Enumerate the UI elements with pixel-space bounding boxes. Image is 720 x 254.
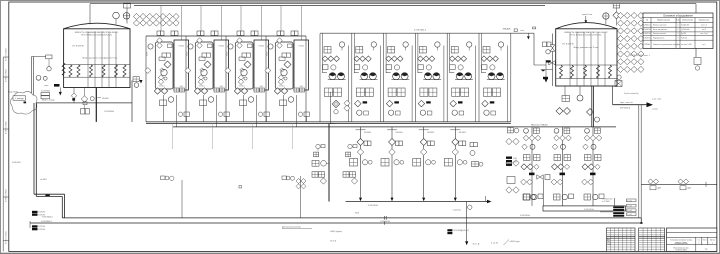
svg-text:9.078-96: 9.078-96 [38, 229, 45, 231]
discharge column PC3 grid boxes [585, 155, 592, 161]
filter unit FU3 lower circle and box [258, 112, 262, 116]
filter unit FU1 lower circle and box [178, 112, 182, 116]
pump unit PU5 pump suction line [450, 72, 455, 74]
tank T1 heating coils [69, 65, 72, 77]
drain column DC4 second diamond [452, 149, 459, 156]
pump unit PU2 discharge diamond [355, 100, 362, 107]
svg-text:9.078 сл: 9.078 сл [279, 86, 285, 88]
drain arrow under tank T1 [59, 92, 62, 96]
svg-text:1: 1 [678, 44, 679, 46]
svg-text:ЕМКОСТЬ ХРАНЕНИЯ МАЗУТА ПОЗ.Е-: ЕМКОСТЬ ХРАНЕНИЯ МАЗУТА ПОЗ.Е-9601/1 [75, 31, 119, 34]
svg-text:9.078-ТХ-9603: 9.078-ТХ-9603 [6, 48, 8, 61]
svg-text:2 сл.Б: 2 сл.Б [627, 210, 632, 212]
discharge column PC1 diamond+circle [522, 144, 528, 150]
instrument grid box right of tank T1 [133, 77, 139, 82]
svg-text:9.078-ТХ-9603: 9.078-ТХ-9603 [6, 69, 8, 82]
pump unit PU2 instrument grid box [356, 47, 363, 54]
discharge column PC1 lower diamonds [521, 179, 527, 185]
svg-text:П-9604/1-3: П-9604/1-3 [643, 37, 651, 39]
valve group on transfer line 2 [678, 179, 683, 184]
pump unit PU1 instrument circle [339, 42, 344, 47]
drain column DC4 instrument boxes [444, 159, 452, 167]
pump unit PU3 motor boxes [388, 88, 396, 96]
instrument circle with cross above tank T2 [603, 13, 609, 19]
tank T2 heating coils [560, 65, 563, 78]
pump unit PU4 discharge diamond [418, 100, 425, 107]
drain column DC4 valve diamond [452, 139, 459, 146]
svg-text:9.078-9603-4: 9.078-9603-4 [520, 215, 530, 217]
svg-text:V=2000 м3: V=2000 м3 [681, 24, 689, 26]
tank T1 side outlet with valve [73, 88, 75, 94]
pump unit PU2 pump suction line [354, 72, 359, 74]
svg-text:9.078-96: 9.078-96 [38, 212, 45, 214]
filter unit FU3 left instruments [228, 44, 233, 49]
svg-text:9Ф-9603: 9Ф-9603 [102, 97, 109, 100]
svg-text:Зх18: Зх18 [513, 158, 517, 160]
svg-text:К-во: К-во [676, 20, 679, 22]
pipe: pump section suction header [320, 32, 534, 34]
relief diamond bank right of tank T2 [617, 12, 623, 18]
pipe: vapour header top (double line) [90, 3, 696, 5]
instrument circle with cross on tank T1 [123, 13, 130, 20]
svg-text:1 сл.Б: 1 сл.Б [627, 206, 632, 208]
discharge column PC1 bottom instruments [523, 194, 530, 200]
pump unit PU5 suction drop [449, 34, 451, 74]
svg-text:Мазут, давление атмосферное Р: Мазут, давление атмосферное Р атм. [83, 57, 118, 60]
pump unit PU1 pump suction line [323, 72, 328, 74]
svg-text:Примечание: Примечание [699, 20, 709, 22]
svg-text:9.078-9603-4: 9.078-9603-4 [584, 209, 594, 211]
valve left of tank T2 [549, 61, 555, 65]
drain column DC3 second diamond [420, 149, 427, 156]
filter unit FU1 outlet valve diamonds [154, 88, 160, 94]
drain column DC3 label tick [419, 129, 429, 131]
satellite column top instruments [508, 128, 514, 133]
pump unit PU1 suction drop [322, 34, 324, 74]
pump unit PU3 discharge diamond [386, 100, 393, 107]
svg-text:3 сл. Б: 3 сл. Б [473, 244, 480, 246]
pump unit PU5 valve diamonds [449, 56, 455, 62]
discharge column PC1 flag [529, 173, 535, 176]
drain column DC1 pipe [360, 127, 362, 198]
pump unit PU3 pump suction line [386, 72, 391, 74]
discharge column PC1 pipe [531, 127, 533, 206]
product outlet arrow [647, 102, 654, 107]
discharge column PC1 grid boxes [524, 155, 531, 161]
filter unit FU4 top instrument boxes [277, 31, 281, 35]
pump unit PU6 suction drop [481, 34, 483, 74]
pump unit PU3 instrument grid box [388, 47, 395, 54]
svg-text:к МЦУ в/доч: к МЦУ в/доч [510, 241, 520, 243]
svg-text:9Ф-9605: 9Ф-9605 [364, 131, 371, 134]
pump unit PU2 suction drop [353, 34, 355, 74]
filter unit FU1 top instrument boxes [157, 31, 161, 35]
drain column DC1 extra instruments [343, 172, 349, 178]
drain column DC2 pipe [391, 127, 393, 198]
frame left zone strip [2, 57, 4, 251]
discharge column PC3 diamond pair [582, 164, 588, 170]
svg-text:9.078-9602-3: 9.078-9602-3 [414, 30, 427, 32]
pipe: drain line 2 [30, 222, 641, 224]
pipe: riser to manifold band [542, 180, 544, 206]
tick on transfer line [705, 182, 707, 187]
svg-text:Трасс. насос бм: Трасс. насос бм [620, 102, 633, 104]
filter unit FU2 heater vessel [214, 40, 229, 90]
arrow stub on pump header [527, 33, 529, 36]
filter unit FU4 lower circle and box [298, 112, 302, 116]
relief diamond bank top-left [133, 13, 139, 19]
double diamond instrument at pump unit 1 [330, 92, 332, 124]
svg-text:9.078-9603-4: 9.078-9603-4 [380, 221, 390, 223]
svg-text:ЕМКОСТЬ ХРАНЕНИЯ МАЗУТА ПОЗ.Е-: ЕМКОСТЬ ХРАНЕНИЯ МАЗУТА ПОЗ.Е-9601/2 [564, 31, 608, 34]
instrument box LT on tank T1 riser [124, 3, 131, 8]
filter unit FU4 drops to bus [282, 95, 284, 122]
drain column DC3 instrument boxes [413, 159, 421, 167]
svg-text:поз. 1,2: поз. 1,2 [701, 24, 707, 26]
tank T1 vent riser [89, 4, 91, 25]
instrument boxes bottom-left of tank T1 [41, 92, 50, 95]
svg-text:9.078: 9.078 [187, 52, 189, 56]
discharge column PC1 diamond row [523, 135, 529, 141]
filter unit FU1 risers to vapour header [160, 6, 162, 31]
svg-text:П-9604: П-9604 [218, 46, 224, 48]
tank T2 bottom cluster [577, 95, 583, 101]
svg-text:слив: слив [44, 85, 48, 87]
discharge column PC2 grid boxes [554, 155, 561, 161]
filter unit FU3 risers to vapour header [240, 6, 242, 31]
filter unit FU3 lower instrument boxes [254, 88, 259, 92]
drain column DC1 instrument boxes [350, 159, 358, 167]
svg-text:ПОЗ. Е-9601/2 V=2000 м3 Н=12: ПОЗ. Е-9601/2 V=2000 м3 Н=12м [571, 35, 602, 37]
pipe: filter section top header [146, 35, 306, 37]
instrument circle group left of tank T1 [47, 67, 51, 71]
drain column DC1 valve diamond [357, 139, 364, 146]
svg-text:Ду80: Ду80 [688, 188, 692, 190]
pipe: secondary bus [173, 126, 616, 128]
flag labels hoz-voda [447, 229, 452, 231]
svg-text:9.078: 9.078 [267, 52, 269, 56]
svg-text:3 сл.Б: 3 сл.Б [627, 200, 632, 202]
tank T2 body [556, 29, 617, 86]
pump unit PU6 valve diamonds [481, 56, 487, 62]
instrument boxes under tank T1 [81, 109, 85, 115]
discharge column PC3 diamond+circle [583, 144, 589, 150]
pump unit PU6 instrument grid box [483, 47, 490, 54]
pipe: drain collecting bus [346, 201, 490, 203]
svg-text:приток Р атм: приток Р атм [582, 14, 593, 16]
pump unit PU6 seal box and circle [482, 65, 488, 70]
pipe: common discharge bus [146, 121, 511, 123]
filter unit FU2 lower circle and box [218, 112, 222, 116]
tank T2 internal level lines [569, 32, 571, 86]
valve group on transfer line 1 [648, 179, 653, 184]
svg-text:Обозначение: Обозначение [682, 20, 693, 22]
filter unit FU1 separators [145, 36, 147, 122]
drain column DC3 pipe [423, 127, 425, 198]
svg-text:1 сл.Б: 1 сл.Б [627, 214, 632, 216]
svg-text:поз. 4 щ.б: поз. 4 щ.б [700, 33, 707, 35]
pump unit PU5 motor boxes [452, 88, 460, 96]
svg-text:2: 2 [698, 243, 699, 245]
svg-text:Подогреватель: Подогреватель [653, 37, 664, 39]
manifold side label boxes [627, 199, 637, 202]
svg-text:9.078-9603-4: 9.078-9603-4 [368, 205, 378, 207]
svg-text:насос: насос [520, 30, 524, 32]
pump unit PU4 discharge circle [420, 110, 425, 115]
svg-text:Насос центробежн.: Насос центробежн. [653, 29, 668, 31]
manifold leader line [600, 211, 613, 213]
pump unit PU2 pumps [361, 73, 368, 80]
stub pipes below filter section [171, 124, 173, 150]
pump unit PU2 motor boxes [356, 88, 364, 96]
svg-text:9.078: 9.078 [147, 52, 149, 56]
filter unit FU3 stack internals [237, 38, 243, 44]
flag labels 3x [506, 157, 512, 159]
svg-text:Изм: Изм [607, 239, 610, 241]
arrow connector left of tank T2 [541, 70, 547, 72]
svg-text:9.078 сл: 9.078 сл [159, 86, 165, 88]
svg-text:к МЦУ (вдоль): к МЦУ (вдоль) [330, 231, 342, 233]
pump unit PU1 separator [319, 34, 321, 122]
drain manifold band [543, 206, 625, 211]
filter unit FU1 instrument stack frame [155, 42, 173, 89]
svg-text:щ.б: щ.б [703, 44, 706, 46]
pipe: transfer line right segment [641, 183, 717, 185]
title block main area [667, 228, 717, 251]
svg-text:9Ф-9605: 9Ф-9605 [427, 131, 434, 134]
valve box at tank T2 outlet [615, 81, 622, 87]
svg-text:С завода: С завода [15, 98, 25, 100]
discharge column PC2 flag [560, 173, 566, 176]
svg-text:П-9604: П-9604 [258, 46, 264, 48]
discharge column PC2 bottom instruments [554, 194, 561, 200]
svg-text:НАСОСЫ ОТКАЧКИ: НАСОСЫ ОТКАЧКИ [531, 124, 548, 127]
svg-text:9.078-ТХ-9603: 9.078-ТХ-9603 [6, 189, 8, 202]
pump unit PU2 seal box and circle [354, 65, 360, 70]
svg-text:9.078-ТХ-9603: 9.078-ТХ-9603 [6, 121, 8, 134]
pipe: feed line from cloud to units [36, 102, 132, 104]
svg-text:4: 4 [678, 33, 679, 35]
drain column DC4 pipe [454, 127, 456, 198]
svg-text:Листов: Листов [710, 239, 715, 241]
svg-text:Комплект контрольно-изм. прибо: Комплект контрольно-изм. приборов [653, 44, 680, 46]
manifold flag labels [613, 206, 624, 208]
pump unit PU1 valve diamonds [322, 56, 328, 62]
svg-text:2: 2 [678, 24, 679, 26]
discharge column PC2 top instruments [554, 128, 559, 133]
pump unit PU6 motor boxes [484, 88, 492, 96]
pipe: tank T1 main outlet downcomer [95, 88, 97, 122]
svg-text:поз. 3: поз. 3 [702, 29, 706, 31]
filter unit FU2 lower instrument boxes [214, 88, 219, 92]
pump unit PU1 seal box and circle [323, 65, 329, 70]
pump unit PU1 motor boxes [325, 88, 333, 96]
downcomer instrument group [316, 144, 320, 148]
drain column DC1 label tick [356, 129, 366, 131]
pump unit PU4 instrument grid box [419, 47, 426, 54]
filter unit FU4 lower instrument boxes [294, 88, 299, 92]
pipe: outlet drop to drain lines (double) [638, 105, 640, 218]
filter unit FU1 lower instrument boxes [174, 88, 179, 92]
drain riser group A [161, 176, 166, 180]
svg-text:9.078-96: 9.078-96 [38, 214, 45, 216]
svg-text:9.078-9603-4: 9.078-9603-4 [42, 216, 53, 218]
pipe: tank T2 main downcomer [591, 86, 593, 127]
drain drop with arrow (3 sl B) [466, 202, 468, 242]
svg-text:П-9604: П-9604 [298, 46, 304, 48]
pump unit PU6 pumps [488, 73, 495, 80]
svg-text:Слив В=0: Слив В=0 [453, 209, 461, 211]
drain flag left of tank T2 [545, 79, 548, 82]
svg-text:П-9604: П-9604 [178, 46, 184, 48]
pump unit PU4 motor boxes [420, 88, 428, 96]
pump unit PU2 valve diamonds [354, 56, 360, 62]
pump unit PU4 pumps [424, 73, 431, 80]
svg-text:9.078-9603: 9.078-9603 [12, 162, 21, 164]
pump unit PU1 pumps [329, 73, 336, 80]
svg-text:по спец. 9.078: по спец. 9.078 [681, 44, 692, 46]
instrument PSV circle on tank T1 [113, 12, 120, 19]
svg-text:Наименование: Наименование [657, 20, 670, 22]
relief valve diamond above tank T2 [613, 12, 620, 19]
pump unit PU5 discharge diamond [450, 100, 457, 107]
pipe: header right drop [695, 4, 697, 57]
svg-text:к Т-9603 Гкал: к Т-9603 Гкал [602, 199, 613, 201]
filter unit FU1 left instruments [148, 44, 153, 49]
filter unit FU4 outlet valve diamonds [274, 88, 280, 94]
svg-text:3: 3 [678, 37, 679, 39]
svg-text:Мазут, давление атм. Р атм.: Мазут, давление атм. Р атм. [574, 47, 599, 49]
discharge column PC2 diamond pair [552, 164, 558, 170]
filter unit FU2 outlet valve diamonds [194, 88, 200, 94]
filter unit FU3 drops to bus [242, 95, 244, 122]
discharge column PC3 top instruments [585, 128, 590, 133]
extra instrument above manifold [524, 194, 531, 200]
discharge column PC3 flag [590, 173, 596, 176]
title block revision grid 2 [639, 228, 665, 251]
filter unit FU3 outlet valve diamonds [234, 88, 240, 94]
filter unit FU4 risers to vapour header [280, 6, 282, 31]
tick on L feed line [45, 195, 49, 197]
label box in cloud [13, 96, 26, 100]
filter unit FU3 instrument stack frame [235, 42, 253, 89]
svg-text:9Ф-9605: 9Ф-9605 [396, 131, 403, 134]
off-page connector cloud (from plant) [10, 91, 37, 114]
instrument box left of tank T1 [46, 55, 52, 59]
filter unit FU4 instrument stack frame [275, 42, 293, 89]
pump unit PU4 separator [414, 34, 416, 122]
svg-text:Зх18: Зх18 [513, 161, 517, 163]
svg-text:Мазут М100: Мазут М100 [8, 92, 18, 94]
svg-text:6: 6 [678, 29, 679, 31]
filter unit FU3 top instrument boxes [237, 31, 241, 35]
svg-text:9.078: 9.078 [227, 52, 229, 56]
discharge column PC3 diamond row [584, 135, 590, 141]
pipe: drain line 1 end elbow [640, 218, 642, 223]
instrument circle under tank T1 [90, 97, 94, 101]
pump unit PU3 suction drop [385, 34, 387, 74]
drain column DC2 valve diamond [389, 139, 396, 146]
filter unit FU4 left instruments [268, 44, 273, 49]
filter unit FU3 separators [225, 36, 227, 122]
pump unit PU2 instrument circle [371, 42, 376, 47]
drain riser group B [282, 176, 287, 180]
pump unit PU5 seal box and circle [450, 65, 456, 70]
svg-text:ХОЗ-ВОДА (95л-7): ХОЗ-ВОДА (95л-7) [454, 229, 470, 232]
pump header elbow down to tank T2 [533, 33, 535, 65]
pump unit PU5 instrument grid box [451, 47, 458, 54]
feed arrow into filter header [140, 80, 143, 84]
svg-text:Лист: Лист [703, 239, 707, 241]
svg-text:НВА-АМС: НВА-АМС [503, 28, 512, 31]
discharge column PC2 pipe [562, 127, 564, 206]
svg-text:9.078-9601: 9.078-9601 [41, 91, 50, 93]
tank T2 coil zone lines [556, 64, 617, 66]
title block revision grid 1 [607, 228, 636, 251]
svg-text:9.078-9603-4: 9.078-9603-4 [41, 221, 52, 223]
svg-text:ПОЗ. Е-9601/1 V=2000 м3 Н=12: ПОЗ. Е-9601/1 V=2000 м3 Н=12м [81, 35, 112, 37]
tank T1 body [64, 29, 130, 88]
instrument mini-group right of DC4 [470, 143, 474, 147]
filter unit FU2 separators [185, 36, 187, 122]
discharge column PC2 diamond+circle [552, 144, 558, 150]
union tick on drain lines [384, 216, 386, 220]
pump unit PU3 seal box and circle [386, 65, 392, 70]
pump unit PU3 separator [383, 34, 385, 122]
svg-text:Ел 9.078 В: Ел 9.078 В [563, 44, 574, 46]
pipe: drop to unit bus [131, 81, 133, 122]
drain column DC2 second diamond [389, 149, 396, 156]
pipe: thick L feed line [33, 103, 35, 194]
svg-text:к смыв: к смыв [652, 109, 658, 111]
svg-text:9014: 9014 [355, 213, 359, 215]
legend table: main equipment [643, 13, 713, 49]
pump unit PU4 pump suction line [418, 72, 423, 74]
discharge column PC1 top instruments [524, 128, 529, 133]
flag label left of tank T1 [54, 84, 60, 87]
svg-text:9.078-96: 9.078-96 [38, 226, 45, 228]
filter unit FU2 drops to bus [202, 95, 204, 122]
valve diamond under tank T1 [84, 88, 86, 97]
svg-text:1 экв. слив: 1 экв. слив [652, 99, 661, 101]
svg-text:к Е-9601: к Е-9601 [40, 179, 47, 181]
discharge column PC3 bottom instruments [584, 194, 591, 200]
instrument grid box on frame above tank T2 [613, 4, 620, 8]
svg-text:№: № [646, 19, 648, 22]
pump unit PU3 discharge circle [388, 110, 393, 115]
discharge column PC2 lower diamonds [551, 179, 557, 185]
svg-text:Основное оборудование: Основное оборудование [663, 14, 693, 18]
svg-text:9.078 сл: 9.078 сл [199, 86, 205, 88]
discharge column PC2 diamond row [554, 135, 560, 141]
discharge column PC1 diamond pair [521, 164, 527, 170]
drain column DC4 label tick [450, 129, 460, 131]
svg-text:Лист: Лист [607, 241, 611, 243]
svg-text:Мазут с завода: Мазут с завода [42, 99, 55, 101]
external coil on tank T1 left wall [62, 63, 65, 76]
drain column DC2 instrument boxes [381, 159, 389, 167]
svg-text:от Т-9603: от Т-9603 [602, 201, 610, 203]
pump unit PU3 valve diamonds [386, 56, 392, 62]
pump unit PU4 suction drop [417, 34, 419, 74]
pump unit PU5 discharge circle [452, 110, 457, 115]
filter unit FU2 top instrument boxes [197, 31, 201, 35]
instrument box on header right drop [694, 58, 701, 65]
tank T1 level riser [126, 8, 128, 24]
svg-text:Ду 200: Ду 200 [681, 33, 686, 35]
tank T1 coil zone lines [64, 64, 130, 66]
svg-text:Ду80: Ду80 [658, 188, 662, 190]
